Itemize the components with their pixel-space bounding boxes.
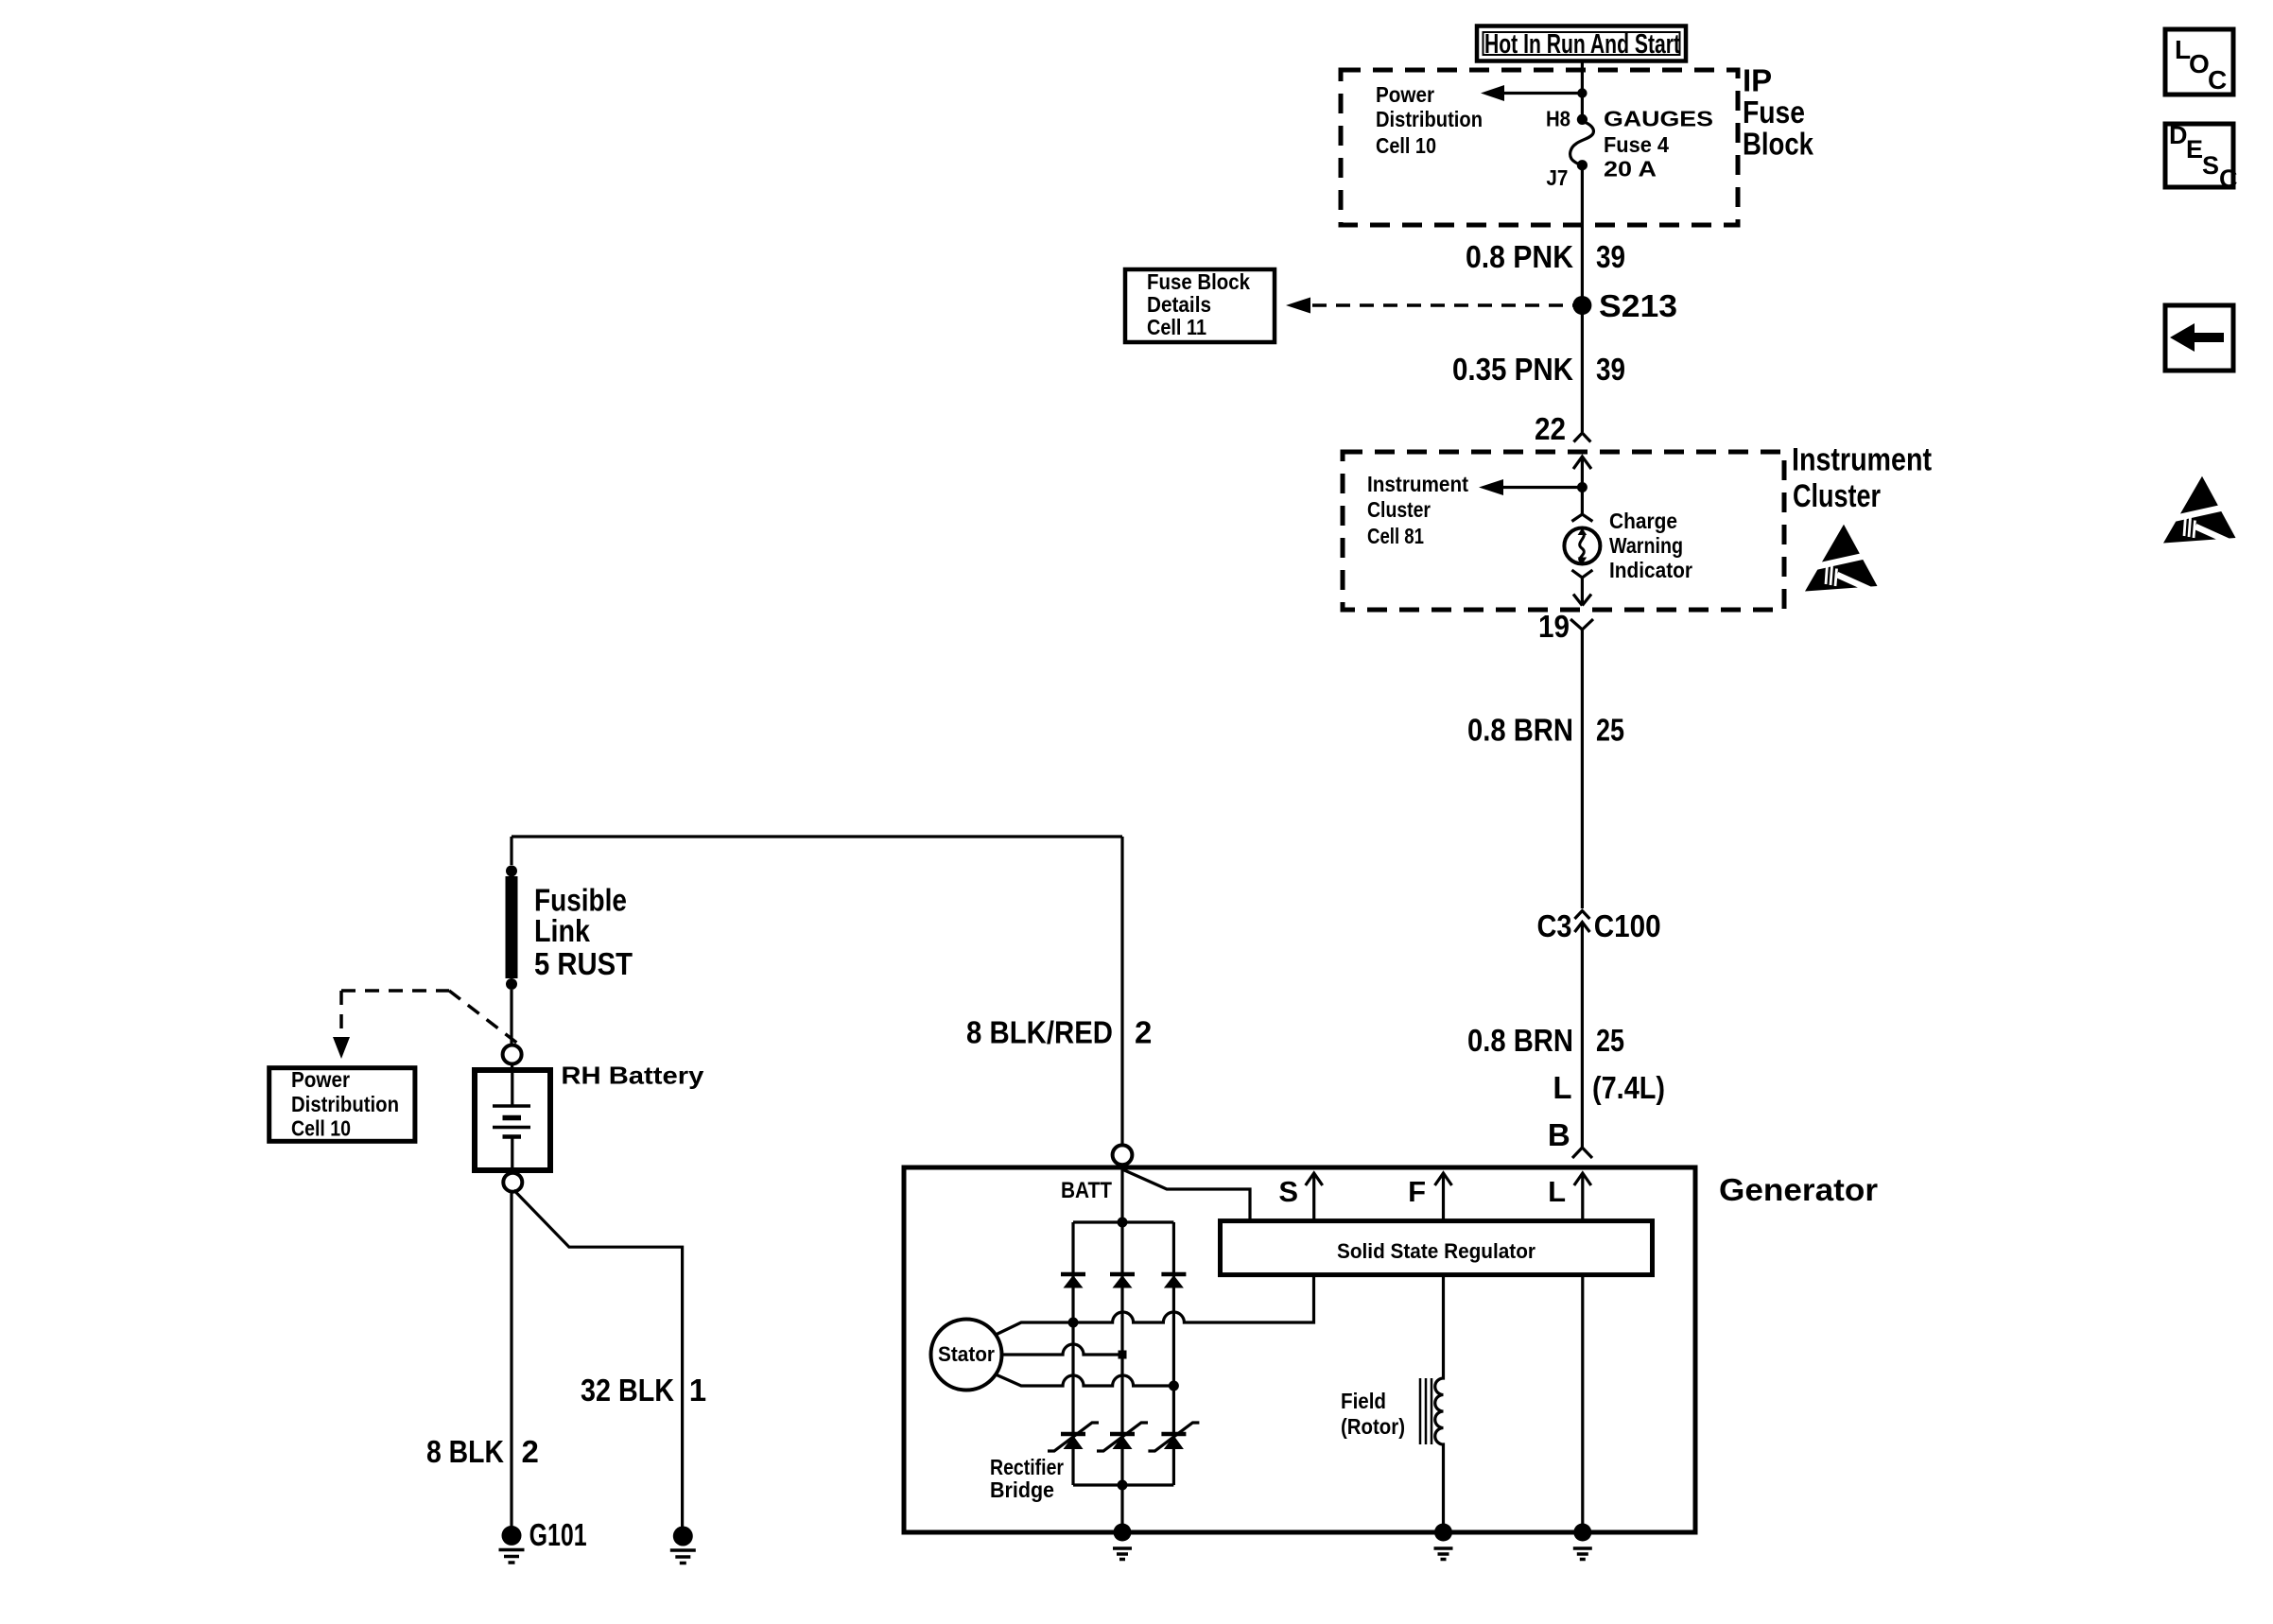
svg-text:H8: H8 xyxy=(1546,106,1570,130)
svg-text:C: C xyxy=(2208,65,2227,95)
svg-text:B: B xyxy=(1548,1117,1570,1152)
svg-text:RH Battery: RH Battery xyxy=(561,1061,704,1089)
svg-text:22: 22 xyxy=(1535,411,1566,446)
svg-text:BATT: BATT xyxy=(1061,1178,1112,1203)
svg-text:32 BLK: 32 BLK xyxy=(581,1373,674,1408)
svg-text:(Rotor): (Rotor) xyxy=(1341,1414,1405,1439)
svg-text:Instrument: Instrument xyxy=(1367,472,1468,496)
svg-text:L: L xyxy=(1553,1070,1571,1105)
svg-text:Generator: Generator xyxy=(1719,1172,1878,1207)
svg-text:O: O xyxy=(2189,49,2210,78)
svg-text:Block: Block xyxy=(1743,127,1814,162)
svg-text:Distribution: Distribution xyxy=(291,1092,399,1116)
svg-text:1: 1 xyxy=(689,1373,706,1408)
svg-text:Cell 10: Cell 10 xyxy=(1376,133,1436,158)
svg-text:E: E xyxy=(2186,135,2203,164)
svg-text:0.35 PNK: 0.35 PNK xyxy=(1452,352,1573,387)
svg-text:0.8 BRN: 0.8 BRN xyxy=(1467,1023,1573,1058)
svg-text:Cluster: Cluster xyxy=(1793,478,1881,514)
svg-text:Instrument: Instrument xyxy=(1792,442,1932,478)
svg-text:Cluster: Cluster xyxy=(1367,497,1431,522)
svg-text:Hot In Run And Start: Hot In Run And Start xyxy=(1484,29,1680,60)
svg-text:2: 2 xyxy=(522,1434,539,1469)
svg-text:C: C xyxy=(2219,164,2238,193)
svg-text:(7.4L): (7.4L) xyxy=(1592,1070,1665,1105)
svg-text:Distribution: Distribution xyxy=(1376,107,1483,131)
svg-text:Fuse Block: Fuse Block xyxy=(1147,269,1250,294)
svg-text:Cell 10: Cell 10 xyxy=(291,1115,351,1140)
svg-text:S: S xyxy=(1278,1175,1298,1208)
svg-text:GAUGES: GAUGES xyxy=(1604,106,1713,130)
svg-text:IP: IP xyxy=(1743,63,1772,98)
svg-text:Stator: Stator xyxy=(938,1342,995,1366)
svg-text:0.8 PNK: 0.8 PNK xyxy=(1466,239,1573,274)
svg-text:Details: Details xyxy=(1147,292,1211,317)
svg-text:J7: J7 xyxy=(1546,165,1568,190)
svg-text:Warning: Warning xyxy=(1609,533,1683,558)
svg-text:Fusible: Fusible xyxy=(534,883,627,918)
svg-text:5 RUST: 5 RUST xyxy=(534,946,633,981)
svg-text:Indicator: Indicator xyxy=(1609,558,1692,582)
svg-text:D: D xyxy=(2169,121,2188,149)
svg-text:C100: C100 xyxy=(1594,908,1661,943)
svg-text:Link: Link xyxy=(534,913,591,948)
svg-text:Fuse 4: Fuse 4 xyxy=(1604,132,1669,157)
svg-text:L: L xyxy=(1548,1175,1566,1208)
svg-text:Rectifier: Rectifier xyxy=(990,1455,1064,1479)
svg-text:Solid State Regulator: Solid State Regulator xyxy=(1337,1239,1536,1263)
svg-text:2: 2 xyxy=(1135,1015,1152,1050)
svg-text:C3: C3 xyxy=(1537,908,1572,943)
svg-text:S213: S213 xyxy=(1599,288,1677,323)
svg-text:Cell 81: Cell 81 xyxy=(1367,524,1424,548)
svg-text:25: 25 xyxy=(1596,713,1624,748)
svg-text:Cell 11: Cell 11 xyxy=(1147,315,1206,339)
svg-text:39: 39 xyxy=(1596,352,1625,387)
svg-text:Charge: Charge xyxy=(1609,509,1677,533)
svg-text:G101: G101 xyxy=(529,1517,587,1552)
svg-text:20 A: 20 A xyxy=(1604,157,1657,181)
svg-text:19: 19 xyxy=(1538,609,1570,644)
svg-text:39: 39 xyxy=(1596,239,1625,274)
svg-text:F: F xyxy=(1408,1175,1426,1208)
svg-text:Field: Field xyxy=(1341,1389,1386,1413)
svg-text:Power: Power xyxy=(291,1067,350,1092)
svg-text:25: 25 xyxy=(1596,1023,1624,1058)
svg-text:8 BLK: 8 BLK xyxy=(426,1434,504,1469)
svg-text:S: S xyxy=(2202,151,2219,180)
svg-text:Bridge: Bridge xyxy=(990,1477,1054,1502)
svg-text:0.8 BRN: 0.8 BRN xyxy=(1467,713,1573,748)
svg-text:Power: Power xyxy=(1376,82,1434,107)
svg-text:Fuse: Fuse xyxy=(1743,95,1805,130)
svg-text:8 BLK/RED: 8 BLK/RED xyxy=(966,1015,1113,1050)
